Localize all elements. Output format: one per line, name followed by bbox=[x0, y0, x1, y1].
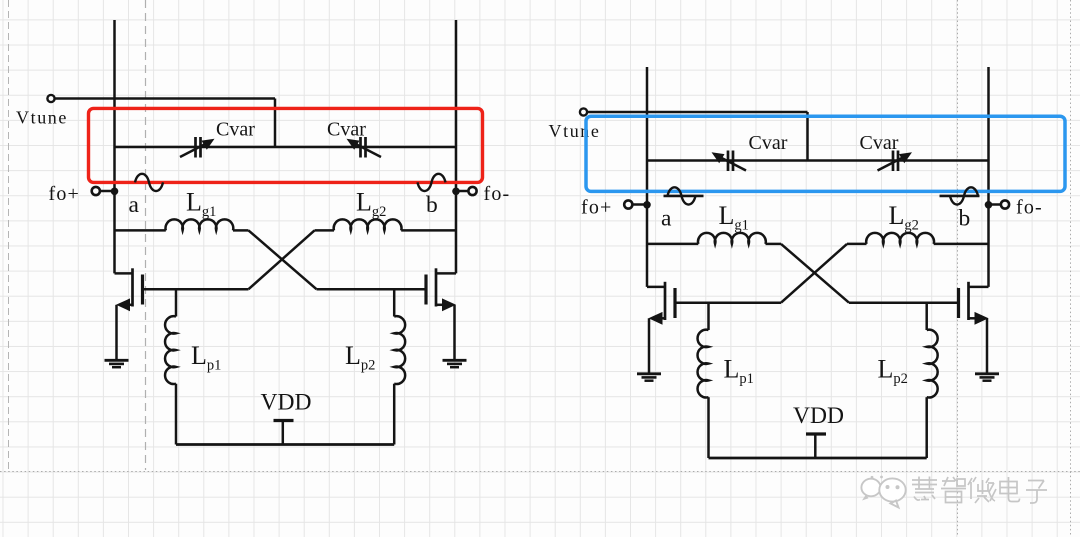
wire Lg1 to cross (right ckt) bbox=[766, 243, 782, 246]
svg-text:b: b bbox=[426, 192, 438, 218]
transistor M1 channel bbox=[131, 268, 134, 306]
junction node a bbox=[111, 188, 119, 196]
wire Lg2 to rail (right ckt) bbox=[934, 243, 989, 246]
sine squiggle node b (left) bbox=[418, 174, 446, 191]
terminal fo+ bbox=[92, 187, 100, 195]
sine squiggle node a (left) bbox=[135, 174, 163, 191]
wire Lg2 left stub bbox=[315, 229, 335, 232]
svg-text:Vtune: Vtune bbox=[549, 121, 601, 141]
transistor M2 channel (right ckt) bbox=[967, 282, 970, 320]
power VDD bar (right ckt) bbox=[806, 432, 826, 435]
transistor M1 channel (right ckt) bbox=[664, 282, 667, 320]
wire Lp2 top bbox=[393, 289, 396, 316]
transistor M1 gate bar (right ckt) bbox=[673, 288, 676, 318]
wire fo+ stub bbox=[99, 190, 114, 193]
varactor Cvar1 arrow (right ckt, mirrored) bbox=[718, 156, 747, 171]
svg-text:Cvar: Cvar bbox=[216, 119, 255, 141]
ground M1 (right ckt) bbox=[637, 372, 661, 375]
inductor Lg2 (right ckt) bbox=[866, 233, 934, 244]
hanzi dian bbox=[1000, 477, 1020, 502]
svg-text:a: a bbox=[129, 192, 140, 218]
wire gate M1 bbox=[144, 288, 249, 291]
ground M1 bbox=[105, 359, 129, 362]
svg-text:VDD: VDD bbox=[261, 390, 312, 416]
junction node b bbox=[452, 188, 460, 196]
wire bottom rail bbox=[176, 443, 394, 446]
power VDD stub bbox=[282, 421, 285, 445]
wire Vtune horizontal bbox=[55, 97, 276, 100]
svg-text:Cvar: Cvar bbox=[749, 132, 788, 154]
wire cross-couple diagonal B (right ckt) bbox=[781, 244, 847, 303]
transistor M1 drain wire (right ckt) bbox=[647, 286, 665, 289]
wire Lp2 bottom bbox=[393, 384, 396, 445]
varactor Cvar2 plates bbox=[361, 137, 366, 158]
transistor M2 source wire + arrow (right ckt) bbox=[969, 317, 977, 320]
junction node b (right ckt) bbox=[985, 201, 993, 209]
inductor Lp2 bbox=[394, 316, 405, 384]
wire Lg2 left stub (right ckt) bbox=[847, 243, 867, 246]
wire gate row left stub bbox=[115, 229, 166, 232]
svg-text:Cvar: Cvar bbox=[327, 119, 366, 141]
wire bottom rail (right ckt) bbox=[709, 457, 927, 460]
hanzi zhi bbox=[941, 477, 966, 503]
wire Lg1 to cross bbox=[233, 229, 249, 232]
terminal fo- bbox=[468, 187, 476, 195]
wire varactor row bbox=[115, 146, 457, 149]
inductor Lg2 bbox=[334, 219, 402, 230]
transistor M1 gate bar bbox=[141, 275, 144, 305]
wire gate M2 (right ckt) bbox=[849, 301, 957, 304]
guide dotted vertical x=957 bbox=[957, 0, 959, 537]
terminal fo- (right ckt) bbox=[1001, 200, 1009, 208]
transistor M2 drain wire (right ckt) bbox=[969, 286, 989, 289]
wire fo- stub (right ckt) bbox=[989, 203, 1002, 206]
wire: left tall vertical (fo+ rail) bbox=[113, 20, 116, 273]
transistor M2 gate bar (right ckt) bbox=[957, 288, 960, 318]
varactor Cvar2 arrow (right ckt, mirrored) bbox=[878, 156, 907, 171]
wire Vtune horizontal (right ckt) bbox=[587, 111, 808, 114]
wire cross-couple diagonal A bbox=[249, 230, 317, 289]
svg-text:fo-: fo- bbox=[1016, 196, 1043, 218]
wire cross-couple diagonal B bbox=[249, 230, 315, 289]
varactor Cvar1 arrow bbox=[180, 142, 209, 157]
inductor Lp2 (right ckt) bbox=[927, 330, 938, 398]
wire M2 source down bbox=[453, 305, 456, 360]
wire: right tall vertical (fo- rail, right ckt) bbox=[987, 67, 990, 287]
transistor M1 drain wire bbox=[115, 272, 133, 275]
varactor Cvar1 plates (right ckt) bbox=[728, 151, 733, 172]
svg-text:fo+: fo+ bbox=[49, 183, 81, 205]
transistor M1 source wire + arrow (right ckt) bbox=[658, 317, 666, 320]
guide dashed vertical left margin bbox=[8, 0, 10, 471]
varactor Cvar2 plates (right ckt) bbox=[893, 151, 898, 172]
svg-text:Vtune: Vtune bbox=[16, 108, 68, 128]
terminal Vtune (right ckt) bbox=[580, 108, 587, 115]
svg-text:b: b bbox=[959, 206, 971, 232]
transistor M1 source wire + arrow bbox=[125, 304, 133, 307]
wire: right tall vertical (fo- rail) bbox=[455, 20, 458, 273]
guide dotted horizontal y=471 bbox=[0, 471, 1080, 473]
watermark logo bubbles bbox=[861, 476, 905, 508]
wire cross-couple diagonal A (right ckt) bbox=[781, 244, 849, 303]
junction node a (right ckt) bbox=[643, 201, 651, 209]
transistor M2 channel bbox=[435, 268, 438, 306]
sine squiggle node a (right) bbox=[668, 187, 696, 204]
svg-text:fo+: fo+ bbox=[581, 196, 613, 218]
wire Vtune feed vertical bbox=[274, 99, 277, 148]
wire M1 source down bbox=[115, 305, 118, 360]
sine marker line node b bbox=[407, 181, 447, 184]
wire gate M2 bbox=[317, 288, 425, 291]
inductor Lg1 bbox=[166, 219, 234, 230]
wire gate M1 (right ckt) bbox=[677, 301, 782, 304]
hanzi zi bbox=[1026, 481, 1047, 504]
inductor Lp1 (right ckt) bbox=[698, 330, 709, 398]
sine marker line node a bbox=[131, 181, 171, 184]
wire Lp1 top (right ckt) bbox=[707, 303, 710, 330]
sine marker line node b (right ckt) bbox=[940, 195, 980, 198]
wire Lp2 top (right ckt) bbox=[925, 303, 928, 330]
wire: left tall vertical (fo+ rail, right ckt) bbox=[646, 67, 649, 287]
power VDD stub (right ckt) bbox=[814, 434, 817, 458]
watermark text 慧智微电子 (approximated strokes) bbox=[912, 477, 1047, 504]
wire Lp1 top bbox=[175, 289, 178, 316]
hanzi wei bbox=[968, 477, 996, 503]
wire varactor row (right ckt) bbox=[647, 159, 989, 162]
terminal fo+ (right ckt) bbox=[624, 200, 632, 208]
transistor M2 drain wire bbox=[436, 272, 456, 275]
transistor M2 source wire + arrow bbox=[436, 304, 444, 307]
varactor Cvar2 arrow bbox=[353, 142, 382, 157]
wire Lp1 bottom bbox=[175, 384, 178, 445]
hanzi hui bbox=[912, 477, 937, 501]
wire Vtune feed vertical (right ckt) bbox=[806, 112, 809, 161]
inductor Lp1 bbox=[165, 316, 176, 384]
wire fo- stub bbox=[456, 190, 469, 193]
highlight box red bbox=[89, 108, 483, 182]
wire fo+ stub (right ckt) bbox=[632, 203, 647, 206]
ground M2 bbox=[443, 359, 467, 362]
svg-text:Cvar: Cvar bbox=[860, 132, 899, 154]
wire Lp2 bottom (right ckt) bbox=[925, 397, 928, 458]
power VDD bar bbox=[274, 419, 294, 422]
transistor M2 gate bar bbox=[424, 275, 427, 305]
wire gate row left stub (right ckt) bbox=[647, 243, 698, 246]
wire M1 source down (right ckt) bbox=[648, 318, 651, 373]
svg-text:fo-: fo- bbox=[484, 183, 511, 205]
highlight box blue bbox=[586, 116, 1065, 191]
wire Lg2 to rail bbox=[401, 229, 456, 232]
wire Lp1 bottom (right ckt) bbox=[707, 397, 710, 458]
wire M2 source down (right ckt) bbox=[986, 318, 989, 373]
terminal Vtune bbox=[47, 95, 54, 102]
sine marker line node a (right ckt) bbox=[664, 195, 704, 198]
guide dotted vertical x=1070 bbox=[1070, 0, 1072, 537]
inductor Lg1 (right ckt) bbox=[698, 233, 766, 244]
svg-text:VDD: VDD bbox=[793, 403, 844, 429]
svg-text:a: a bbox=[661, 206, 672, 232]
varactor Cvar1 plates bbox=[196, 137, 201, 158]
ground M2 (right ckt) bbox=[975, 372, 999, 375]
guide dashed vertical x=145 bbox=[145, 0, 147, 470]
sine squiggle node b (right) bbox=[950, 187, 978, 204]
